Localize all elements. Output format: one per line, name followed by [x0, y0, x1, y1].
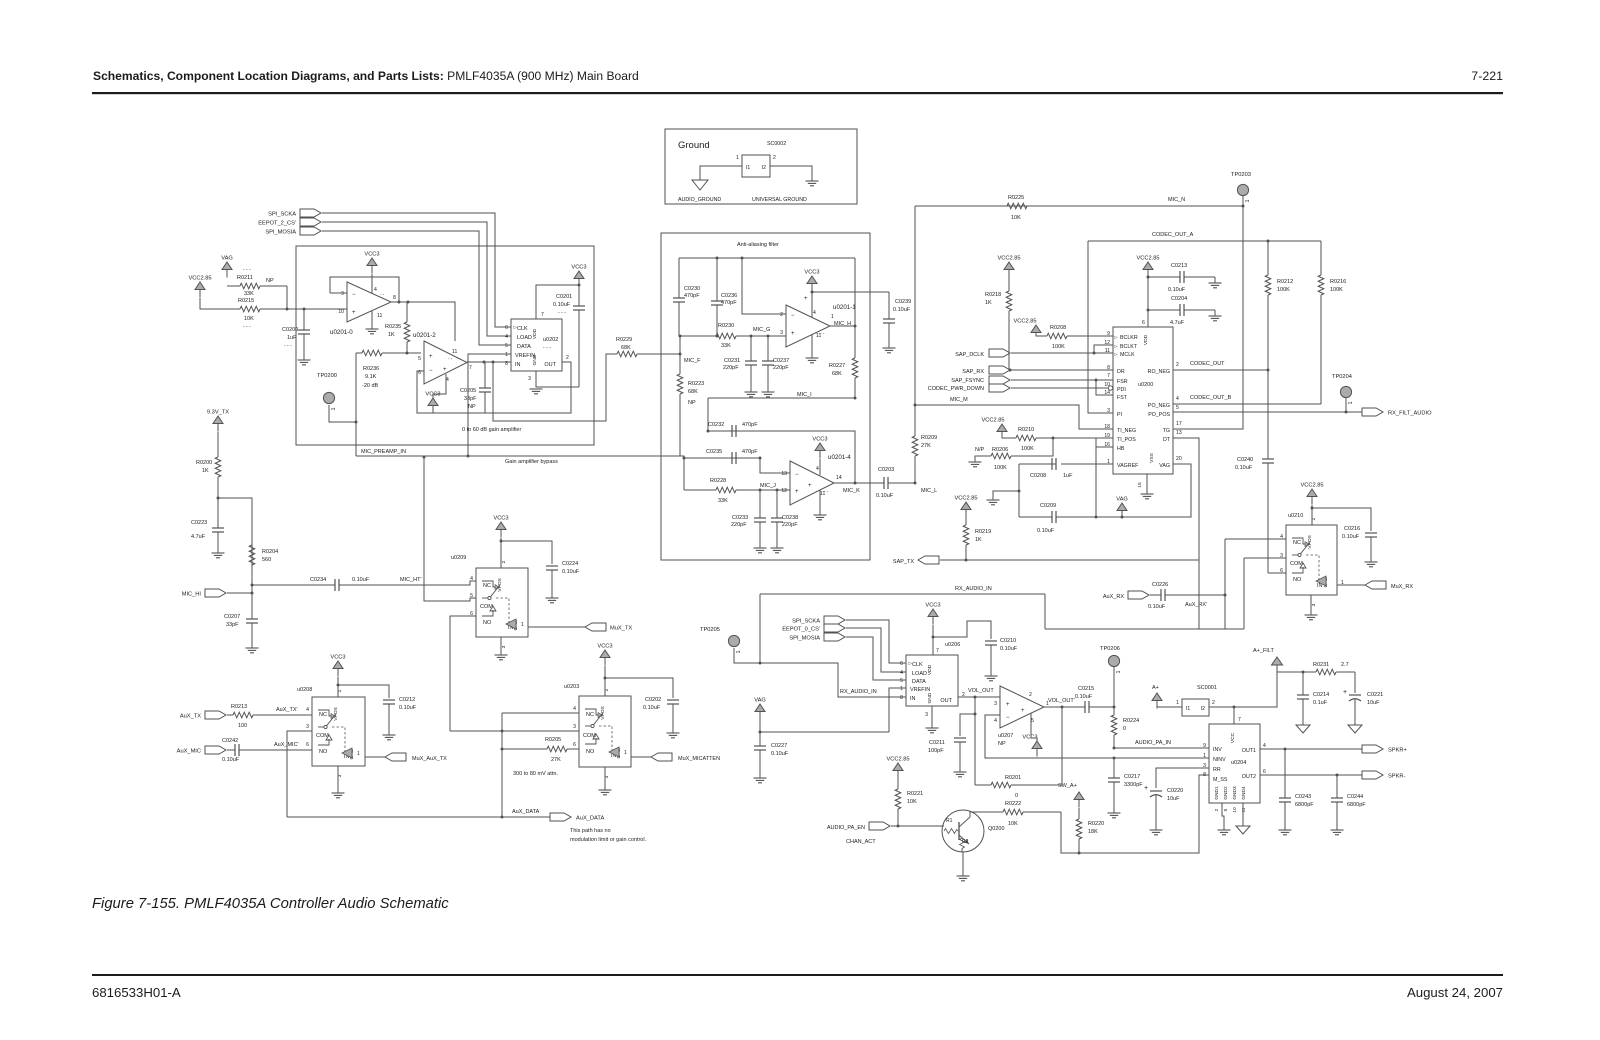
svg-text:100K: 100K — [1277, 287, 1290, 293]
label C0207 — [224, 614, 240, 620]
svg-text:+: + — [1144, 785, 1148, 792]
svg-text:100K: 100K — [1330, 287, 1343, 293]
wire MIC_N vertical — [914, 206, 916, 436]
svg-text:SPI_SCKA: SPI_SCKA — [268, 212, 296, 218]
label R0210 100K — [1021, 446, 1034, 452]
wire SC0002 pin2 to universal ground — [770, 166, 812, 181]
capacitor C0216 — [1365, 533, 1377, 562]
op-amp U0201-0 pin marks — [338, 287, 396, 319]
svg-text:R0225: R0225 — [1008, 195, 1024, 201]
wire SPI_SCKA to U0206 CLK — [846, 620, 906, 663]
test point TP0203 — [1231, 172, 1251, 202]
label R0231 2.7 — [1341, 662, 1349, 668]
svg-text:TP0203: TP0203 — [1231, 172, 1251, 178]
capacitor C0217 — [1108, 758, 1120, 813]
svg-text:VCC3: VCC3 — [925, 603, 940, 609]
svg-text:C0230: C0230 — [684, 286, 700, 292]
label R0222 10K — [1008, 821, 1018, 827]
gain amplifier note — [462, 427, 521, 433]
label R0221 10K — [907, 799, 917, 805]
wire U0209 GND — [500, 637, 502, 655]
header rule — [92, 92, 1503, 94]
wire R0229 tap — [493, 354, 617, 421]
resistor R0213 — [233, 712, 312, 718]
svg-text:C0214: C0214 — [1313, 692, 1329, 698]
svg-text:NC: NC — [586, 712, 594, 718]
wire VCC2.85 stem — [200, 298, 210, 309]
junction MIC_J a — [759, 489, 762, 492]
svg-text:VAG: VAG — [1116, 497, 1128, 503]
svg-text:MuX_TX: MuX_TX — [610, 626, 632, 632]
IC U0208 analog switch — [312, 697, 365, 766]
label R0230 33K — [721, 343, 731, 349]
wire U0209 VPOS to C0224 — [501, 541, 552, 564]
wire VCC3 to U0209 VPOS — [500, 538, 502, 568]
junction C0200 tap — [303, 308, 306, 311]
svg-text:SAP_TX: SAP_TX — [893, 559, 914, 565]
label C0224 — [562, 561, 578, 567]
junction MCLK BCLKT — [1093, 352, 1096, 355]
ground triangle under C0214 — [1296, 725, 1310, 733]
junction MIC_F — [679, 353, 682, 356]
svg-text:PDI: PDI — [1117, 387, 1126, 393]
wire DT to SAP_TX — [1173, 438, 1199, 560]
wire OUT1 row — [1260, 748, 1362, 750]
svg-text:CHAN_ACT: CHAN_ACT — [846, 839, 876, 845]
svg-text:C0221: C0221 — [1367, 692, 1383, 698]
label C0239 — [895, 299, 911, 305]
wire U0210 COM row — [1244, 557, 1286, 559]
power VCC3 at U0201-1 — [804, 270, 819, 292]
svg-text:1K: 1K — [202, 468, 209, 474]
svg-text:CODEC_OUT_A: CODEC_OUT_A — [1152, 232, 1194, 238]
svg-text:4: 4 — [505, 334, 508, 340]
svg-text:NO: NO — [483, 620, 492, 626]
connector SPI_SCKA right — [792, 616, 845, 625]
label MIC_G — [753, 327, 770, 333]
IC U0202 digital pot — [511, 319, 562, 371]
svg-text:OUT1: OUT1 — [1242, 748, 1256, 754]
wire U0210 COM riser — [1243, 558, 1245, 629]
svg-text:0 to 60 dB gain amplifier: 0 to 60 dB gain amplifier — [462, 427, 521, 433]
wire MIC_I row — [708, 397, 855, 399]
svg-text:u0201-0: u0201-0 — [330, 329, 353, 336]
junction TP0204 — [1345, 411, 1348, 414]
svg-text:6: 6 — [306, 742, 309, 748]
label C0244 — [1347, 794, 1363, 800]
svg-text:VCC2.85: VCC2.85 — [997, 256, 1020, 262]
resistor R0201 — [975, 782, 1062, 788]
svg-text:5: 5 — [470, 593, 473, 599]
svg-text:u0201-2: u0201-2 — [413, 332, 436, 339]
wire SC0001 to U0204 VCC — [1209, 707, 1234, 724]
svg-text:3: 3 — [994, 701, 997, 707]
svg-text:VPOS: VPOS — [497, 577, 503, 591]
label MIC_L — [921, 488, 937, 494]
wire AUDIO_PA_EN to Q0200 — [891, 825, 944, 827]
label C0212 0.10uF — [399, 705, 417, 711]
svg-text:13: 13 — [1176, 430, 1182, 436]
svg-text:SAP_RX: SAP_RX — [962, 369, 984, 375]
wire U0210 NC row — [1225, 538, 1286, 540]
label C0200 1uF — [287, 335, 297, 341]
label R0209 — [921, 435, 937, 441]
connector MuX_TX — [585, 623, 632, 632]
ground under C0243 — [1279, 830, 1292, 835]
svg-text:8: 8 — [1107, 365, 1110, 371]
wire AUX node riser — [501, 713, 503, 817]
svg-text:33pF: 33pF — [464, 396, 477, 402]
label R0212 — [1277, 279, 1293, 285]
R0211 NP marks — [243, 267, 251, 273]
svg-text:100pF: 100pF — [928, 748, 944, 754]
svg-text:1uF: 1uF — [287, 335, 297, 341]
wire VCC3 to U0208 VPOS — [337, 677, 339, 697]
wire Q0200 emitter gnd — [962, 849, 963, 877]
svg-text:VCC3: VCC3 — [812, 437, 827, 443]
label R0229 68K — [621, 345, 631, 351]
label SAP_DCLK — [955, 352, 984, 358]
wire TP0200 to node — [329, 405, 356, 422]
svg-text:7: 7 — [1107, 373, 1110, 379]
svg-text:R2: R2 — [962, 839, 969, 845]
svg-text:0: 0 — [1123, 726, 1126, 732]
svg-text:1: 1 — [505, 352, 508, 358]
resistor R0236 — [362, 350, 421, 356]
wire U0209 IN to MuX_TX — [528, 626, 585, 628]
wire U0208 COM down — [287, 731, 312, 817]
svg-text:1K: 1K — [975, 537, 982, 543]
wire MIC_HI node down — [251, 593, 253, 617]
op-amp U0207 — [1000, 686, 1044, 728]
C0201 NP marks — [558, 310, 566, 316]
ground under C0212 — [383, 735, 396, 740]
svg-text:8: 8 — [393, 295, 396, 301]
svg-text:9: 9 — [1203, 743, 1206, 749]
svg-text:▷: ▷ — [909, 661, 913, 666]
svg-text:0.10uF: 0.10uF — [553, 302, 571, 308]
svg-text:R0227: R0227 — [829, 363, 845, 369]
wire C0234 to U0209 NC — [344, 581, 476, 585]
wire MIC_N line — [915, 205, 1243, 207]
power VCC3 at U0203 — [597, 644, 612, 666]
wire node to opamp pin10 — [304, 308, 347, 310]
junction A+_FILT node — [1233, 706, 1236, 709]
junction C0244 — [1336, 774, 1339, 777]
label R0200 — [196, 460, 212, 466]
wire U0201-2 output to U0202 IN — [467, 361, 511, 363]
junction CODEC_OUT_A R0212 — [1267, 240, 1270, 243]
svg-text:CODEC_OUT: CODEC_OUT — [1190, 361, 1225, 367]
ground under C0239 — [883, 348, 896, 353]
svg-text:OUT: OUT — [940, 698, 952, 704]
wire A+_FILT row — [1277, 671, 1306, 673]
svg-text:18K: 18K — [1088, 829, 1098, 835]
wire VCC3 to U0201-1 pin4 — [811, 292, 813, 317]
capacitor C0234 — [330, 579, 344, 591]
label C0217 3300pF — [1124, 782, 1143, 788]
svg-text:u0201-1: u0201-1 — [833, 304, 856, 311]
svg-text:NP: NP — [688, 400, 696, 406]
svg-text:AuX_TX: AuX_TX — [180, 714, 201, 720]
connector SPI_MOSIA — [265, 227, 321, 236]
label CODEC_PWR_DOWN — [928, 386, 984, 392]
capacitor C0244 — [1331, 775, 1343, 830]
svg-text:1K: 1K — [985, 300, 992, 306]
wire VCC3 rail to C0239 — [812, 291, 889, 293]
label R0200 1K — [202, 468, 209, 474]
U0203 switch symbol — [585, 709, 619, 757]
svg-text:12: 12 — [1104, 340, 1110, 346]
power VCC3 at U0208 — [330, 655, 345, 677]
wire MIC_I to C0232 — [707, 398, 709, 431]
svg-text:SC0002: SC0002 — [767, 141, 786, 147]
junction C0243 — [1284, 748, 1287, 751]
svg-text:7: 7 — [541, 312, 544, 318]
svg-text:MIC_G: MIC_G — [753, 327, 770, 333]
svg-text:9.3V_TX: 9.3V_TX — [207, 410, 229, 416]
test point TP0205 — [700, 627, 742, 653]
wire SC0002 pin1 to audio ground — [700, 166, 742, 180]
wire U0201-0 pin11 to ground — [371, 311, 373, 329]
label C0216 — [1344, 526, 1360, 532]
label C0226 0.10uF — [1148, 604, 1166, 610]
label u0207 NP — [998, 741, 1006, 747]
svg-text:14: 14 — [836, 475, 842, 481]
label C0201 — [556, 294, 572, 300]
power VCC3 at U0209 — [493, 516, 508, 538]
connector MuX_MICATTEN — [651, 753, 672, 761]
svg-text:−: − — [352, 292, 356, 298]
svg-text:SAP_DCLK: SAP_DCLK — [955, 352, 984, 358]
svg-text:VOL_OUT': VOL_OUT' — [1048, 698, 1075, 704]
ground under C0200 — [298, 360, 311, 365]
svg-text:TP0200: TP0200 — [317, 373, 337, 379]
wire C0213 gnd — [1214, 277, 1216, 283]
power VCC2.85 R0219 — [954, 496, 977, 518]
wire R0236 left lead — [356, 352, 362, 354]
label R0223 NP — [688, 400, 696, 406]
junction VCC3 C0239 — [811, 291, 814, 294]
svg-text:MIC_HI: MIC_HI — [182, 592, 202, 598]
label R0221 — [907, 791, 923, 797]
svg-text:- - -: - - - — [243, 267, 251, 273]
svg-text:SPI_MOSIA: SPI_MOSIA — [789, 636, 820, 642]
svg-text:R0228: R0228 — [710, 478, 726, 484]
svg-text:0.1uF: 0.1uF — [1313, 700, 1328, 706]
svg-text:C0243: C0243 — [1295, 794, 1311, 800]
wire U0201-0 pin9 input — [330, 292, 347, 294]
wire MIC_F vertical — [679, 336, 681, 372]
svg-text:11: 11 — [1241, 807, 1247, 812]
IC U0209 analog switch — [476, 568, 528, 637]
svg-text:IN: IN — [515, 362, 521, 368]
resistor R0200 — [215, 432, 221, 498]
svg-text:0.10uF: 0.10uF — [399, 705, 417, 711]
svg-text:2: 2 — [1029, 692, 1032, 698]
svg-text:MIC_M: MIC_M — [950, 397, 968, 403]
label R0205 27K — [551, 757, 561, 763]
svg-text:R0231: R0231 — [1313, 662, 1329, 668]
svg-text:R0236: R0236 — [363, 366, 379, 372]
label C0223 — [191, 520, 207, 526]
svg-text:R0212: R0212 — [1277, 279, 1293, 285]
svg-text:RX_AUDIO_IN: RX_AUDIO_IN — [955, 586, 992, 592]
svg-text:LOAD: LOAD — [912, 671, 927, 677]
svg-text:+: + — [1006, 702, 1010, 708]
label A+_FILT — [1253, 648, 1274, 654]
svg-text:RO_NEG: RO_NEG — [1148, 369, 1170, 375]
svg-text:0.10uF: 0.10uF — [1235, 465, 1253, 471]
wire U0206 VDD to C0210 — [933, 621, 991, 639]
capacitor C0235 — [732, 452, 736, 464]
capacitor C0201 — [573, 285, 585, 387]
svg-text:NC: NC — [1293, 540, 1301, 546]
label MIC_PREAMP_IN — [361, 449, 406, 455]
svg-text:C0240: C0240 — [1237, 457, 1253, 463]
svg-text:SC0001: SC0001 — [1197, 685, 1217, 691]
svg-text:OUT2: OUT2 — [1242, 774, 1256, 780]
label C0236 470pF — [721, 300, 737, 306]
label R0208 — [1050, 325, 1066, 331]
wire A+_FILT down — [1234, 672, 1277, 707]
wire VOL_OUT' down — [1061, 707, 1063, 758]
label C0242 — [222, 738, 238, 744]
svg-text:0: 0 — [1015, 793, 1018, 799]
svg-text:10uF: 10uF — [1367, 700, 1380, 706]
svg-text:R0201: R0201 — [1005, 775, 1021, 781]
label C0231 — [724, 358, 740, 364]
wire U0201-0 feedback loop — [330, 277, 399, 302]
capacitor C0213 — [1148, 271, 1215, 283]
capacitor C0208 — [1019, 458, 1056, 470]
svg-text:TP0205: TP0205 — [700, 627, 720, 633]
label C0201 0.10uF — [553, 302, 571, 308]
svg-text:FST: FST — [1117, 395, 1128, 401]
junction U0203 COM — [501, 730, 504, 733]
label R0223 68K — [688, 389, 698, 395]
ground under Q0200 — [957, 876, 970, 881]
svg-text:C0238: C0238 — [782, 515, 798, 521]
svg-text:R0215: R0215 — [238, 298, 254, 304]
power VCC2.85 R0218 — [997, 256, 1020, 278]
wire VCC2.85 to U0200 VDD — [1147, 270, 1149, 327]
wire MIC_PREAMP_IN bypass line — [356, 456, 684, 490]
power SW_A+ arrow — [1074, 792, 1084, 808]
junction C0236 bottom — [716, 335, 719, 338]
svg-text:6: 6 — [900, 661, 903, 667]
label C0232 470pF — [742, 422, 758, 428]
capacitor C0205 — [479, 362, 491, 413]
ground under C0244 — [1331, 830, 1344, 835]
label MuX_AuX_TX — [412, 756, 447, 762]
label R0201 0 — [1015, 793, 1018, 799]
wire SAP_FSYNC to FSR — [1011, 379, 1113, 381]
label C0211 100pF — [928, 748, 944, 754]
connector MuX_RX — [1365, 581, 1386, 589]
svg-text:1: 1 — [1348, 401, 1354, 404]
ground under U0204 — [1218, 830, 1231, 835]
svg-text:7: 7 — [469, 365, 472, 371]
label R0215 — [238, 298, 254, 304]
label C0242 0.10uF — [222, 757, 240, 763]
junction U0209 VPOS — [500, 540, 503, 543]
svg-text:C0226: C0226 — [1152, 582, 1168, 588]
ground under U0210 — [1305, 615, 1318, 620]
svg-text:C0244: C0244 — [1347, 794, 1363, 800]
label C0238 — [782, 515, 798, 521]
svg-text:4: 4 — [816, 466, 819, 472]
label C0214 0.1uF — [1313, 700, 1328, 706]
svg-text:MuX_RX: MuX_RX — [1391, 584, 1413, 590]
svg-text:4: 4 — [374, 287, 377, 293]
wire VOL_OUT down — [974, 697, 976, 785]
svg-text:CLK: CLK — [912, 662, 923, 668]
svg-text:VCC2.85: VCC2.85 — [1136, 256, 1159, 262]
op-amp U0201-1 pin marks — [780, 296, 834, 339]
svg-text:C0210: C0210 — [1000, 638, 1016, 644]
connector SPKR- — [1362, 771, 1405, 780]
svg-text:10K: 10K — [907, 799, 917, 805]
test point TP0200 — [317, 373, 337, 410]
label C0243 6800pF — [1295, 802, 1314, 808]
svg-text:3: 3 — [573, 724, 576, 730]
svg-text:N/P: N/P — [975, 447, 985, 453]
ground under C0227 — [754, 778, 767, 783]
svg-text:NINV: NINV — [1213, 757, 1226, 763]
wire C0235 row — [684, 457, 760, 459]
wire SAP_RX to DR — [1011, 369, 1113, 371]
resistor R0218 — [1006, 270, 1012, 370]
svg-text:C0203: C0203 — [878, 467, 894, 473]
resistor R0223 — [677, 372, 683, 456]
svg-text:220pF: 220pF — [773, 365, 789, 371]
svg-text:AuX_DATA: AuX_DATA — [512, 809, 540, 815]
svg-text:220pF: 220pF — [731, 522, 747, 528]
svg-text:PO_NEG: PO_NEG — [1148, 403, 1170, 409]
svg-text:0.10uF: 0.10uF — [876, 493, 894, 499]
svg-text:I2: I2 — [1201, 706, 1205, 712]
IC U0203 pin labels — [573, 688, 627, 778]
svg-text:R0219: R0219 — [975, 529, 991, 535]
label R0206 — [992, 447, 1008, 453]
label C0234 — [310, 577, 326, 583]
junction MIC_H — [854, 325, 857, 328]
label C0200 — [282, 327, 298, 333]
svg-text:4: 4 — [573, 706, 576, 712]
IC U0200 left pin names — [1115, 335, 1140, 470]
wire FST strap — [1096, 380, 1113, 395]
power A+ arrow — [1152, 693, 1162, 709]
svg-text:10: 10 — [338, 309, 344, 315]
ground under U0208 — [332, 793, 345, 798]
svg-text:4.7uF: 4.7uF — [191, 534, 206, 540]
capacitor C0203 — [879, 477, 915, 489]
junction AuX_RX' — [1224, 594, 1227, 597]
svg-text:TI_NEG: TI_NEG — [1117, 428, 1136, 434]
svg-text:1: 1 — [831, 314, 834, 320]
svg-text:SPKR-: SPKR- — [1388, 774, 1405, 780]
wire AuX_RX to C0226 — [1150, 594, 1156, 596]
wire U0204 gnd1 — [1222, 803, 1224, 830]
wire EEPOT_2_CS' to U0202 LOAD — [322, 222, 511, 336]
junction U0201-0 output a — [398, 301, 401, 304]
svg-text:C0223: C0223 — [191, 520, 207, 526]
wire U0206 GND — [931, 706, 933, 728]
svg-text:BCLKT: BCLKT — [1120, 344, 1138, 350]
label C0213 — [1171, 263, 1187, 269]
junction VAG rail a — [1095, 516, 1098, 519]
